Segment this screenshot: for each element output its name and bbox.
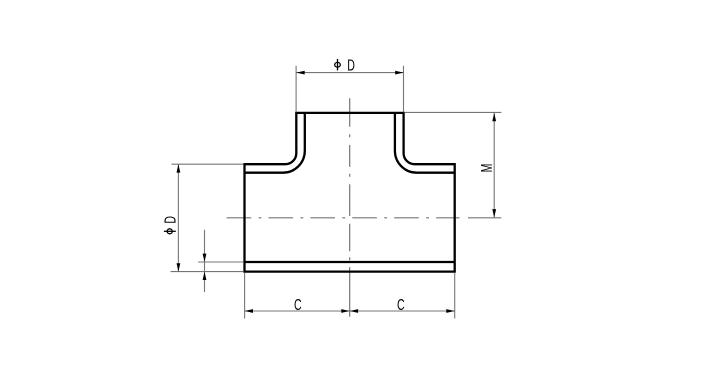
label phi (top) [335,59,341,71]
extension line right [403,66,405,112]
svg-text:C: C [294,296,302,314]
tee inner left contour [245,113,305,173]
extension line right [454,273,456,319]
arrow center pointing left [350,309,358,313]
dimension line [177,164,179,271]
arrow down (above, tip at inner line) [203,254,207,262]
tee inner bottom line [245,261,455,263]
dimension line vertical [204,230,206,292]
svg-text:D: D [161,216,179,224]
horizontal centerline [227,217,460,219]
arrow center pointing right [341,309,349,313]
arrow top [492,113,496,121]
arrow up (below, tip at outer line) [203,272,207,280]
dimension line [245,310,455,312]
svg-text:C: C [397,296,405,314]
extension line left [244,273,246,319]
arrow left [296,71,304,75]
svg-text:D: D [347,56,355,74]
extension line upper (inner bottom) [198,261,243,263]
extension line top [172,163,244,165]
dimension line [296,72,403,74]
arrow far left [245,309,253,313]
horizontal centerline end dash [468,217,501,219]
extension line top [405,111,501,113]
vertical centerline [349,98,351,316]
tee outer contour [245,113,455,272]
extension line left [295,66,297,112]
dimension line [493,113,495,218]
arrow right [395,71,403,75]
svg-text:M: M [478,164,496,173]
arrow top [177,164,181,172]
arrow far right [446,309,454,313]
label phi (left, rotated) [164,229,176,234]
arrow bottom [492,209,496,217]
extension line bottom [171,271,244,273]
tee inner right contour [395,113,455,173]
arrow bottom [177,263,181,271]
